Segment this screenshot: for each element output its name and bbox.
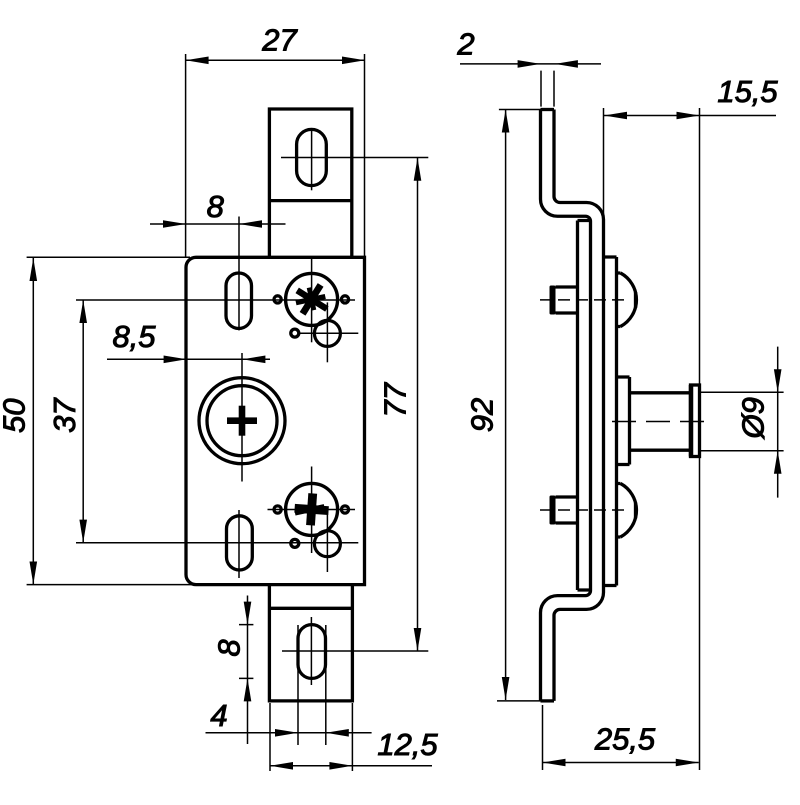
lower screw right side ring [341, 506, 348, 513]
end washer [691, 385, 700, 457]
dim 50 line [32, 258, 34, 585]
body lower oval slot [227, 516, 253, 570]
svg-text:8,5: 8,5 [112, 319, 156, 354]
dim 25,5 arrows [543, 759, 699, 767]
lower screw nub body [556, 497, 577, 523]
upper screw head circle [286, 273, 338, 325]
dim 15,5 right extension long [699, 108, 701, 770]
vertical center line upper screw [311, 259, 313, 342]
bent strip top cap [541, 108, 555, 111]
dim 8 top arrows [163, 220, 262, 228]
dim 4 line [206, 732, 372, 734]
top tab outline [269, 109, 351, 257]
dim 77 line [417, 158, 419, 651]
body upper oval slot [226, 273, 252, 329]
dim 8 bottom extension ticks [239, 625, 253, 679]
upper screw nub cap [550, 286, 556, 315]
horizontal center line top tab oval [281, 157, 428, 159]
dim 27 extension lines [186, 54, 365, 257]
dim 92 line [505, 110, 507, 701]
upper screw nub body [556, 287, 577, 313]
spindle flange [617, 377, 630, 465]
upper small ring [291, 329, 299, 337]
upper satellite circle [314, 320, 340, 346]
dim Ø9 line [777, 347, 779, 498]
dim 2 extension lines [541, 71, 554, 107]
vertical center line lower satellite [326, 512, 328, 573]
dim 8,5 arrows [164, 356, 266, 364]
svg-text:25,5: 25,5 [594, 721, 656, 756]
svg-text:8: 8 [212, 639, 247, 657]
upper screw phillips marking [288, 276, 336, 323]
upper screw right side ring [341, 296, 348, 303]
svg-text:15,5: 15,5 [717, 74, 778, 109]
dim 27 arrows [186, 57, 365, 65]
bottom tab outline [269, 585, 352, 701]
svg-text:Ø9: Ø9 [736, 397, 771, 439]
central spindle inner circle [207, 386, 277, 456]
dim 2 arrows [518, 60, 578, 68]
bottom tab oval slot [298, 625, 326, 679]
bent strip inner contour [554, 110, 604, 701]
lower screw phillips marking [294, 492, 330, 526]
dim 27 line [186, 59, 365, 61]
dim 8 bottom arrows [244, 602, 252, 702]
lower small ring [291, 539, 299, 547]
svg-text:8: 8 [207, 189, 225, 224]
dim Ø9 arrows [774, 369, 782, 473]
spindle dashed center line [612, 421, 705, 423]
dim 50 extension lines [27, 257, 196, 584]
dim 15,5 left extension [603, 108, 605, 222]
svg-text:37: 37 [47, 397, 82, 433]
central spindle outer circle [199, 378, 285, 464]
upper screw dashed center line [540, 299, 629, 301]
vertical center line upper satellite [326, 302, 328, 362]
center line lower screw row [268, 509, 356, 511]
upper screw left side ring [274, 296, 281, 303]
vertical center line central circle [241, 353, 243, 482]
svg-text:4: 4 [210, 698, 227, 733]
dim 50 arrows [30, 258, 38, 585]
dim 37 line [82, 300, 84, 543]
dim 15,5 arrows [604, 112, 700, 120]
end washer thick face [689, 385, 694, 457]
dim Ø9 extension lines [700, 392, 784, 450]
center line upper satellite row [300, 332, 358, 334]
dim 92 extension lines [497, 110, 541, 701]
body plate outline [186, 257, 365, 584]
svg-text:27: 27 [261, 23, 298, 58]
lower screw dashed center line [540, 509, 629, 511]
top tab fold line [269, 199, 351, 202]
dim 12,5 extension lines [270, 703, 352, 771]
central bold cross [227, 406, 257, 436]
svg-text:92: 92 [465, 398, 500, 432]
svg-text:12,5: 12,5 [377, 727, 438, 762]
dim 2 line [460, 63, 601, 65]
lower screw nub cap [550, 496, 556, 525]
dim 4 extension lines [298, 625, 326, 745]
lower screw left side ring [274, 506, 281, 513]
dim 15,5 line [604, 115, 776, 117]
dim 4 arrows [275, 729, 349, 737]
flat plate A [578, 221, 591, 591]
dim 25,5 extension line [542, 705, 544, 770]
bent strip outer contour [541, 110, 591, 701]
dim 8 top line [150, 223, 286, 225]
dim 12,5 line [270, 765, 432, 767]
bottom tab fold line [269, 607, 352, 610]
dim 8,5 line [107, 358, 270, 360]
upper screw slot tick [634, 292, 637, 308]
vertical center line bottom tab oval [310, 617, 312, 685]
vertical center line lower oval [238, 510, 240, 578]
upper screw head dome [617, 273, 637, 327]
dim 92 arrows [502, 110, 510, 701]
lower screw head dome [617, 484, 637, 538]
spindle shaft [630, 393, 691, 450]
dim 8 bottom line [247, 596, 249, 745]
dim 37 arrows [79, 300, 87, 543]
dim 77 arrows [414, 158, 422, 651]
svg-text:50: 50 [0, 399, 31, 433]
svg-text:2: 2 [456, 27, 474, 62]
vertical center line lower screw [311, 467, 313, 554]
top tab oval slot [297, 129, 327, 185]
dim 25,5 line [543, 762, 699, 764]
lower screw head circle [286, 483, 338, 535]
vertical center line top tab oval [311, 131, 313, 191]
lower screw slot tick [634, 503, 637, 519]
lower satellite circle [314, 531, 340, 557]
body plate C side [604, 257, 617, 586]
bent strip bottom cap [541, 699, 555, 702]
center line lower oval row [76, 542, 358, 544]
dim 12,5 arrows [270, 762, 352, 770]
center line upper screw row [76, 299, 355, 301]
horizontal center line bottom tab oval [282, 650, 428, 652]
vertical center line upper oval [238, 217, 240, 331]
svg-text:77: 77 [377, 381, 412, 417]
